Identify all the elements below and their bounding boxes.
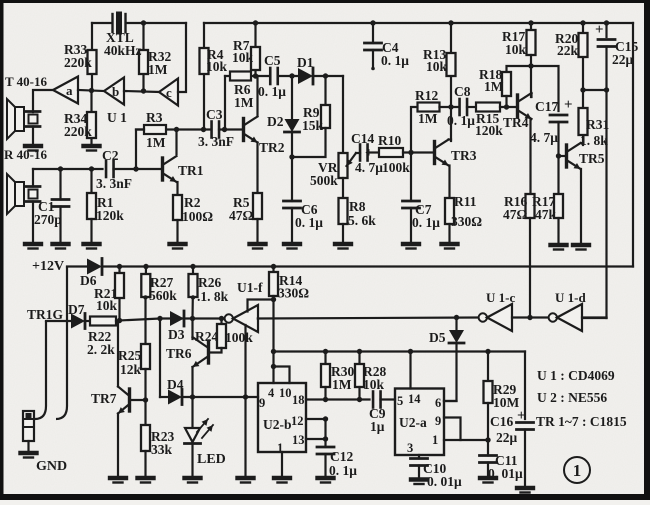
svg-text:GND: GND [36,459,67,474]
svg-text:R31: R31 [586,117,609,132]
svg-text:U2-b: U2-b [263,417,292,432]
svg-text:C14: C14 [351,131,374,146]
svg-text:+12V: +12V [32,259,64,274]
svg-text:+: + [517,408,526,424]
svg-text:220k: 220k [64,124,92,139]
svg-text:0. 1μ: 0. 1μ [381,53,409,68]
svg-text:U 2 : NE556: U 2 : NE556 [537,390,607,405]
svg-text:40kHz: 40kHz [104,43,142,58]
svg-text:R2: R2 [184,195,201,210]
svg-text:.1. 8k: .1. 8k [197,289,229,304]
svg-text:10k: 10k [96,298,118,313]
svg-text:b: b [112,84,119,99]
svg-text:a: a [66,83,73,98]
svg-text:4: 4 [268,386,275,400]
svg-text:T 40-16: T 40-16 [5,74,48,89]
svg-text:C12: C12 [330,449,353,464]
svg-text:C16: C16 [490,414,513,429]
svg-text:10k: 10k [505,42,527,57]
svg-text:1M: 1M [418,111,438,126]
svg-text:2. 2k: 2. 2k [87,342,115,357]
svg-text:TR6: TR6 [166,346,192,361]
svg-text:0. 1μ: 0. 1μ [412,215,440,230]
svg-text:TR7: TR7 [91,391,117,406]
svg-text:100Ω: 100Ω [182,209,213,224]
svg-text:0. 1μ: 0. 1μ [295,215,323,230]
svg-text:5. 6k: 5. 6k [348,213,376,228]
svg-text:13: 13 [292,433,305,447]
svg-text:c: c [166,85,172,100]
svg-text:22μ: 22μ [496,430,518,445]
svg-text:D1: D1 [297,55,314,70]
svg-text:R25: R25 [118,348,141,363]
svg-text:10k: 10k [206,59,228,74]
svg-text:C3: C3 [206,107,223,122]
svg-text:15k: 15k [302,118,324,133]
svg-text:1M: 1M [332,377,352,392]
svg-text:U1-f: U1-f [237,280,263,295]
svg-text:C2: C2 [102,148,119,163]
svg-text:12: 12 [291,414,304,428]
svg-text:14: 14 [408,392,421,406]
svg-text:1: 1 [277,441,283,455]
svg-text:0. 1μ: 0. 1μ [329,463,357,478]
svg-text:3. 3nF: 3. 3nF [96,176,132,191]
svg-text:10k: 10k [363,377,385,392]
svg-text:1M: 1M [148,62,168,77]
svg-text:1. 8k: 1. 8k [580,133,608,148]
svg-text:R12: R12 [415,88,438,103]
svg-text:C5: C5 [264,53,281,68]
svg-text:5: 5 [397,394,403,408]
svg-text:TR 1~7 : C1815: TR 1~7 : C1815 [536,414,627,429]
svg-text:U 1: U 1 [107,110,127,125]
svg-text:22μ: 22μ [612,52,634,67]
svg-text:0. 01μ: 0. 01μ [427,474,462,489]
svg-text:0. 1μ: 0. 1μ [447,113,475,128]
svg-text:TR1: TR1 [178,163,204,178]
svg-text:0. 1μ: 0. 1μ [258,84,286,99]
svg-text:U 1-c: U 1-c [486,290,515,305]
svg-text:TR4: TR4 [503,115,529,130]
svg-text:R11: R11 [454,194,477,209]
svg-text:4. 7μ: 4. 7μ [355,160,383,175]
svg-text:1: 1 [573,461,582,480]
svg-text:D3: D3 [168,327,185,342]
svg-text:120k: 120k [475,123,503,138]
svg-text:9: 9 [259,396,265,410]
svg-text:D4: D4 [167,377,184,392]
svg-text:+: + [595,22,604,38]
svg-text:TR3: TR3 [451,148,477,163]
svg-text:120k: 120k [96,208,124,223]
svg-text:1M: 1M [234,95,254,110]
svg-text:R24: R24 [195,329,218,344]
svg-text:3: 3 [407,441,413,455]
svg-text:R3: R3 [146,110,163,125]
svg-text:1: 1 [432,433,438,447]
svg-text:1M: 1M [146,135,166,150]
svg-text:500k: 500k [310,173,338,188]
svg-text:100k: 100k [225,330,253,345]
svg-text:R26: R26 [198,275,221,290]
svg-text:4. 7μ: 4. 7μ [530,130,558,145]
svg-text:270p: 270p [34,212,62,227]
svg-text:3. 3nF: 3. 3nF [198,134,234,149]
svg-text:1μ: 1μ [370,419,385,434]
svg-text:+: + [365,146,373,161]
svg-text:47Ω: 47Ω [229,208,254,223]
svg-text:6: 6 [435,396,441,410]
svg-text:12k: 12k [120,362,142,377]
svg-text:U 1-d: U 1-d [555,290,586,305]
svg-text:0. 01μ: 0. 01μ [488,466,523,481]
svg-text:560k: 560k [149,288,177,303]
svg-text:R8: R8 [349,199,366,214]
svg-text:D2: D2 [267,114,284,129]
svg-text:10k: 10k [426,59,448,74]
svg-text:1M: 1M [484,79,504,94]
svg-text:R 40-16: R 40-16 [4,147,47,162]
svg-text:C17: C17 [535,99,558,114]
svg-text:U2-a: U2-a [399,415,427,430]
svg-text:+: + [564,97,573,113]
svg-text:330Ω: 330Ω [451,214,482,229]
svg-text:47k: 47k [535,207,557,222]
svg-text:10: 10 [279,386,292,400]
svg-text:330Ω: 330Ω [278,286,309,301]
svg-text:TR1G: TR1G [27,307,64,322]
svg-text:10M: 10M [493,395,520,410]
svg-text:TR5: TR5 [579,151,605,166]
svg-text:U 1 : CD4069: U 1 : CD4069 [537,368,615,383]
svg-text:100k: 100k [382,160,410,175]
svg-text:R10: R10 [378,133,401,148]
svg-text:D7: D7 [68,302,85,317]
svg-text:47Ω: 47Ω [503,207,528,222]
svg-text:C8: C8 [454,84,471,99]
svg-text:D5: D5 [429,330,446,345]
svg-text:220k: 220k [64,55,92,70]
svg-text:22k: 22k [557,43,579,58]
svg-text:TR2: TR2 [259,140,285,155]
svg-text:9: 9 [435,414,441,428]
svg-text:18: 18 [292,393,305,407]
svg-text:10k: 10k [232,50,254,65]
svg-text:33k: 33k [151,442,173,457]
svg-text:LED: LED [197,452,226,467]
